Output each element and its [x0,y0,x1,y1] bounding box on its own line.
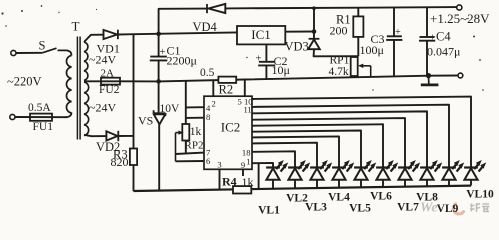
wire [133,149,135,192]
wire [185,141,187,155]
LED VL6 [376,166,390,168]
LED VL8 [420,166,434,168]
svg-text:VL6: VL6 [370,191,392,203]
svg-text:820: 820 [111,155,129,169]
svg-text:VL5: VL5 [349,203,371,215]
svg-text:9: 9 [241,160,245,170]
node output terminal plus [457,5,462,10]
svg-text:IC2: IC2 [221,120,241,135]
wire [252,118,405,167]
wire [134,186,472,191]
wire [252,111,427,167]
wire [58,50,72,55]
LED VL7 [398,166,412,168]
resistor R2 [218,77,236,83]
svg-text:RP1: RP1 [330,55,350,67]
node input terminal bottom [10,114,15,119]
potentiometer RP1 [353,56,355,77]
svg-text:R2: R2 [219,83,234,97]
fuse FU1 [30,114,52,121]
diode VD1 [104,30,118,39]
LED VL5 [354,166,368,168]
svg-text:1k: 1k [242,175,254,189]
wire [225,7,456,8]
potentiometer RP2 [182,124,189,141]
svg-text:4.7k: 4.7k [329,66,349,78]
node junction [156,79,161,84]
capacitor C2 [265,44,267,61]
LED VL3 [310,166,324,168]
svg-text:T: T [72,19,80,34]
resistor R3 [130,149,137,166]
node input terminal top [11,50,16,55]
svg-text:0.5: 0.5 [200,67,215,79]
svg-text:C4: C4 [436,30,451,44]
diode VD3 [309,38,320,40]
svg-text:VD1: VD1 [97,42,120,56]
svg-text:IC1: IC1 [251,27,271,42]
capacitor C1 [158,34,160,56]
capacitor C3 [393,7,395,36]
wire [118,135,133,137]
switch S [42,48,56,53]
wire [252,151,295,167]
svg-text:3: 3 [217,160,221,170]
svg-text:VL8: VL8 [416,192,438,204]
wire [258,163,260,189]
svg-text:FU1: FU1 [33,121,54,133]
svg-text:VL3: VL3 [305,202,327,214]
noise specks [1,12,3,14]
resistor R4 [233,186,251,193]
wire [118,32,237,34]
wire [159,9,207,34]
wire [252,163,273,167]
wire [242,169,244,176]
svg-text:R4: R4 [222,174,237,188]
wire [65,113,72,118]
wire [176,153,205,154]
svg-text:S: S [39,39,46,53]
svg-text:+: + [430,31,436,43]
svg-text:11: 11 [243,105,251,115]
svg-text:1: 1 [246,157,250,167]
svg-text:VL10: VL10 [466,189,494,201]
wire [252,105,449,168]
svg-text:+1.25~28V: +1.25~28V [430,11,490,26]
svg-text:~220V: ~220V [7,75,42,89]
wire [16,52,42,54]
svg-text:2200μ: 2200μ [167,54,197,68]
wire [219,169,221,189]
wire [314,49,359,56]
wire [15,116,67,118]
svg-text:+: + [159,46,165,58]
op-amp U IC1 regulator [237,26,285,44]
svg-text:+: + [255,53,261,65]
wire [84,80,101,82]
svg-text:VD4: VD4 [193,20,218,34]
wire [176,160,205,162]
svg-text:0.5A: 0.5A [28,102,51,114]
wire [244,80,246,97]
svg-text:200: 200 [330,24,348,38]
diode VD2 [106,131,117,140]
node junction [426,73,431,78]
LED VL2 [288,166,302,168]
node output terminal minus [458,73,463,78]
svg-text:~24V: ~24V [89,101,116,115]
wire [313,8,315,38]
ground [428,76,430,84]
svg-text:8: 8 [206,112,210,122]
LED VL4 [332,166,346,168]
svg-text:VS: VS [138,114,153,128]
svg-text:VL1: VL1 [258,205,280,217]
wire [185,81,187,124]
svg-text:+: + [395,27,401,38]
wire [175,133,177,162]
capacitor C4 [426,7,428,36]
svg-text:6: 6 [206,156,211,166]
svg-text:5: 5 [237,96,241,106]
diode VD4 [206,4,208,13]
LED VL1 [266,166,280,168]
op-amp U IC2 LED driver [204,96,252,169]
wire [101,76,458,82]
LED VL9 [442,166,456,168]
svg-text:10V: 10V [160,103,181,115]
svg-text:VL4: VL4 [328,192,350,204]
svg-text:VD3: VD3 [285,40,309,54]
svg-text:0.047μ: 0.047μ [427,45,460,59]
wire [252,143,317,168]
svg-text:FU2: FU2 [99,84,120,96]
svg-text:1k: 1k [190,126,202,138]
wire [84,35,103,42]
wire [133,34,135,149]
wire [252,136,339,167]
wire [212,80,214,96]
wire [84,135,106,136]
wire [252,97,471,168]
node junction [156,32,161,37]
zener VS [154,112,166,114]
resistor R1 [357,8,359,17]
wire [285,31,314,33]
wire [186,117,204,119]
LED VL10 [464,166,478,168]
fuse FU2 [101,78,120,85]
svg-text:2: 2 [212,98,216,108]
wire [186,106,204,108]
wire [252,131,361,168]
svg-text:100μ: 100μ [360,43,384,57]
svg-text:10μ: 10μ [272,63,290,77]
svg-text:RP2: RP2 [185,140,204,152]
node junction [312,29,317,34]
wire [252,124,383,167]
svg-text:VL9: VL9 [437,203,459,215]
